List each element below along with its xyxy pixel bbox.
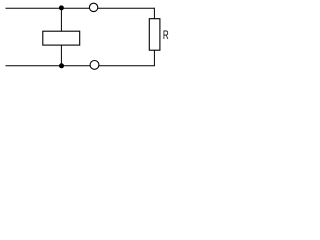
wire right vertical lower segment [153, 50, 155, 66]
impedance box Z [43, 31, 80, 45]
node junction bottom [59, 63, 64, 68]
resistor R body [149, 19, 160, 51]
node junction top [59, 5, 64, 10]
wire left branch lower segment [60, 45, 62, 66]
terminal bottom [90, 61, 99, 70]
wire left branch upper segment [60, 8, 62, 31]
svg-text:R: R [163, 29, 169, 42]
terminal top [89, 3, 97, 11]
wire right vertical upper segment [153, 8, 155, 19]
wire top rail [6, 7, 155, 9]
wire bottom rail [6, 65, 155, 67]
